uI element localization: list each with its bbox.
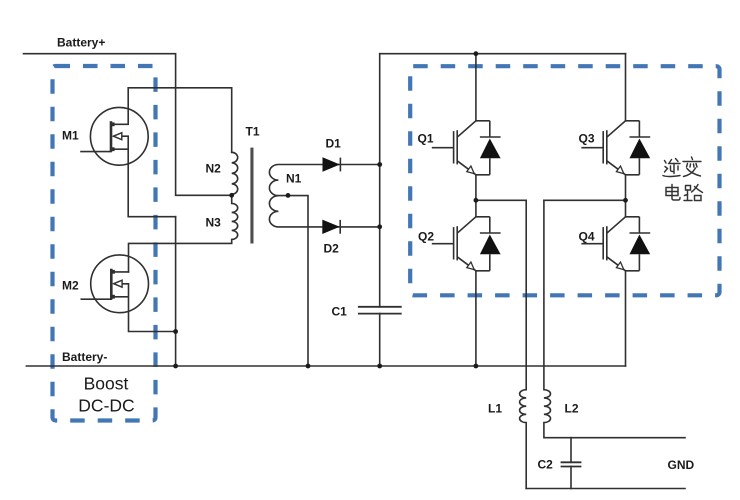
- svg-text:T1: T1: [246, 125, 260, 139]
- svg-text:Q4: Q4: [579, 230, 595, 244]
- svg-text:N1: N1: [286, 172, 302, 186]
- svg-text:M1: M1: [62, 129, 79, 143]
- svg-text:Battery-: Battery-: [62, 350, 107, 364]
- svg-text:Q1: Q1: [418, 132, 434, 146]
- svg-text:DC-DC: DC-DC: [78, 396, 134, 416]
- svg-text:C2: C2: [538, 458, 554, 472]
- svg-text:C1: C1: [332, 305, 348, 319]
- svg-text:Q2: Q2: [418, 230, 434, 244]
- svg-text:Battery+: Battery+: [57, 36, 105, 50]
- svg-text:L2: L2: [565, 402, 579, 416]
- svg-text:M2: M2: [62, 279, 79, 293]
- svg-text:L1: L1: [488, 402, 502, 416]
- svg-text:N2: N2: [206, 162, 222, 176]
- svg-text:Boost: Boost: [84, 374, 129, 394]
- svg-text:N3: N3: [206, 216, 222, 230]
- svg-text:GND: GND: [668, 458, 695, 472]
- svg-text:D1: D1: [326, 137, 342, 151]
- svg-text:Q3: Q3: [579, 132, 595, 146]
- svg-text:D2: D2: [324, 242, 340, 256]
